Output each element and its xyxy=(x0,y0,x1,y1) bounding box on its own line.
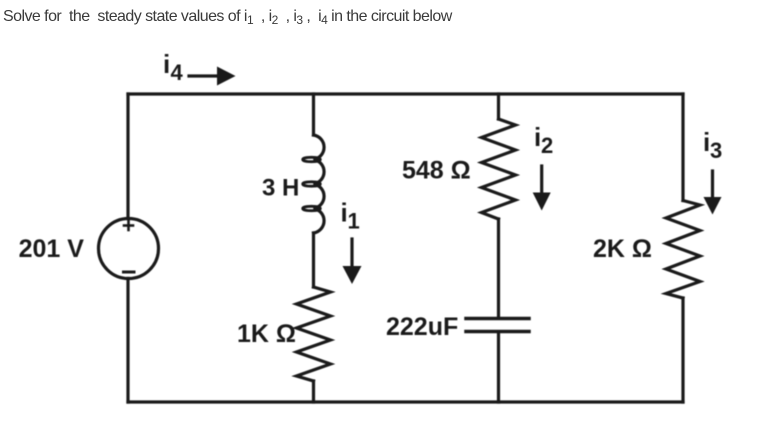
svg-text:1K Ω: 1K Ω xyxy=(237,320,296,348)
svg-text:201 V: 201 V xyxy=(19,235,85,263)
svg-text:2: 2 xyxy=(541,133,553,158)
svg-text:222uF: 222uF xyxy=(386,313,458,341)
svg-text:4: 4 xyxy=(171,60,184,85)
svg-text:1: 1 xyxy=(348,209,360,234)
svg-text:3 H: 3 H xyxy=(262,175,299,202)
svg-text:3: 3 xyxy=(710,138,722,163)
svg-text:2K Ω: 2K Ω xyxy=(593,235,652,263)
svg-text:i: i xyxy=(163,49,170,79)
svg-text:548 Ω: 548 Ω xyxy=(402,157,471,185)
